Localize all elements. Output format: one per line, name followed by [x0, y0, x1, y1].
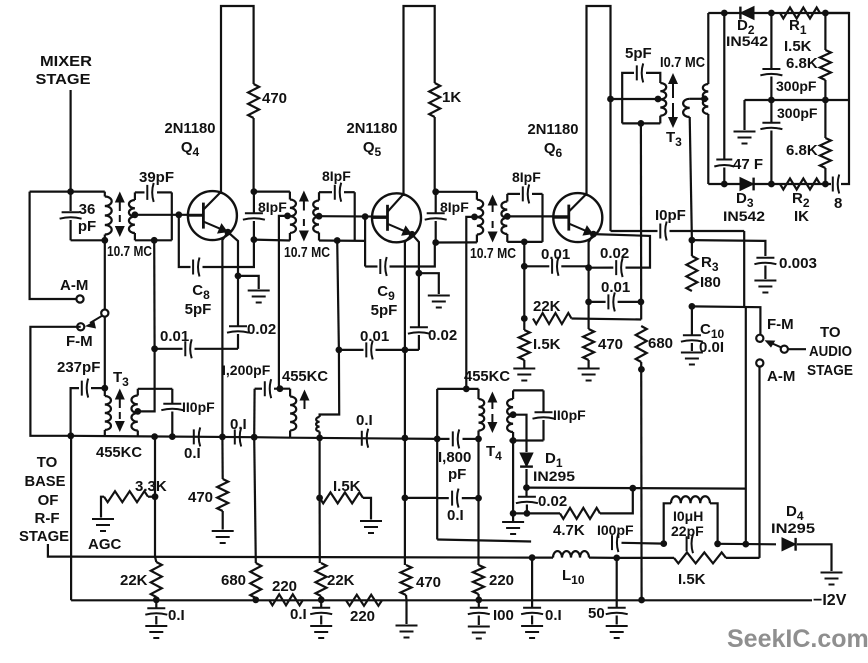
svg-text:6.8K: 6.8K [786, 142, 818, 159]
arrow coupling down (T2) [303, 219, 305, 234]
wire tank2 tap riser [279, 216, 288, 389]
node Q4 emitter [225, 229, 232, 236]
wire T4 tap to D1 [513, 415, 526, 452]
inductor tank4 [476, 192, 478, 200]
wire emitter line to rail (Q5) [404, 350, 406, 438]
node tank2 bottom-left [251, 236, 258, 243]
svg-text:0.I: 0.I [290, 606, 307, 623]
ground 0.1 (22K AGC) [145, 626, 167, 638]
svg-text:3.3K: 3.3K [135, 478, 167, 495]
svg-text:5pF: 5pF [185, 301, 212, 318]
inductor T3out tertiary [690, 98, 705, 100]
wire to R-F stage stub [48, 544, 71, 557]
capacitor 81pF (Q5 input) [319, 191, 332, 193]
arrow coupling down (T4c) [492, 221, 494, 235]
wire tank2 top edge [254, 191, 290, 193]
node det mid left [768, 97, 775, 104]
arrow coupling down (T3) [119, 412, 121, 424]
svg-text:IN542: IN542 [723, 208, 765, 224]
svg-text:47 F: 47 F [733, 156, 763, 173]
wire Q4 emitter branch right [228, 232, 238, 276]
wire tank5 bottom edge [507, 241, 542, 243]
inductor T3 primary [104, 388, 106, 396]
capacitor 0.02 (Q4) [237, 276, 239, 326]
wire A-M line (mixer) [30, 192, 77, 299]
node D1 output [523, 484, 530, 491]
capacitor 1800pF [437, 438, 449, 440]
capacitor 0.003 [754, 258, 776, 264]
inductor T3 secondary [137, 389, 139, 396]
inductor tank1 (primary 10.7MC) [104, 192, 106, 197]
ground C10 [681, 353, 703, 365]
svg-text:455KC: 455KC [282, 368, 328, 385]
terminal F-M (audio) [756, 335, 763, 342]
inductor tank5 [506, 194, 508, 202]
capacitor 0.1 (22K AGC) [155, 600, 157, 608]
svg-text:0.01: 0.01 [541, 246, 570, 263]
wire rail stage2 [290, 438, 437, 439]
svg-text:2N1180: 2N1180 [165, 120, 216, 137]
svg-text:0.I: 0.I [545, 607, 562, 624]
wire tank2 bottom edge [254, 239, 290, 242]
wire T4 left edge [436, 439, 438, 540]
capacitor 110pF (T3) [171, 389, 173, 403]
capacitor 0.1 (stage2 rail) [362, 429, 368, 448]
ground 0.003 [754, 281, 776, 293]
wire switch to T3 [104, 316, 106, 388]
capacitor C8 5pF [179, 215, 191, 267]
node 0.01 left (39pF riser) [151, 345, 158, 352]
wire T455-2 left edge [253, 389, 256, 438]
wire D4 to ground [797, 544, 832, 571]
wire Q5 collector riser [402, 194, 404, 196]
wire F-M line left [30, 327, 80, 436]
capacitor 0.02 (Q5) [418, 273, 420, 326]
svg-text:AUDIO: AUDIO [809, 343, 852, 360]
wire from mixer stage [69, 90, 71, 192]
wire rail to T3 junction riser [70, 436, 72, 601]
wire T4s bottom edge [509, 439, 543, 441]
wire R3 bottom to F-M [692, 306, 761, 334]
svg-text:0.I: 0.I [184, 445, 201, 462]
wire T455-2 bottom edge [254, 436, 290, 439]
wire 5pF bottom edge [622, 122, 660, 124]
node Q4 base junction [175, 211, 182, 218]
node 0.01b right (Q6) [638, 299, 645, 306]
svg-text:0.I: 0.I [356, 412, 373, 429]
wire tap to Q5 base [319, 215, 388, 218]
node 5pF tank tap [655, 96, 662, 103]
capacitor 0.02 (D1) [525, 488, 527, 496]
ground 1.5K (stage2) [360, 521, 382, 533]
svg-text:A-M: A-M [767, 368, 795, 385]
svg-text:II0pF: II0pF [553, 407, 586, 423]
resistor 470 (Q6 emitter) [583, 329, 594, 360]
ground 3.3K (AGC) [92, 519, 114, 531]
node tank3 tap [316, 213, 323, 220]
wire 5pF tap [611, 98, 658, 100]
node Q5 base junction [362, 213, 369, 220]
svg-text:pF: pF [78, 218, 96, 235]
node tank1s tap [132, 211, 139, 218]
svg-text:680: 680 [221, 572, 246, 589]
capacitor 237pF [71, 388, 79, 436]
svg-text:220: 220 [350, 608, 375, 625]
svg-text:I.5K: I.5K [678, 571, 706, 588]
ground 470 (Q6) [587, 360, 589, 368]
capacitor 0.1 (22K2) [320, 600, 322, 607]
wire det mid rail [745, 99, 850, 101]
wire Q6 emitter loop [593, 234, 650, 268]
ground D4 [821, 573, 843, 585]
transistor Q5 2N1180 [372, 193, 421, 242]
resistor 6.8K (upper) [824, 13, 826, 50]
svg-text:8IpF: 8IpF [258, 199, 287, 215]
wire tank4 top edge [436, 191, 477, 193]
svg-text:F-M: F-M [66, 333, 93, 350]
node 1800 right [475, 436, 482, 443]
resistor 1.5K (AM) [617, 557, 674, 559]
capacitor 300pF (upper) [760, 69, 782, 75]
svg-text:IN295: IN295 [771, 520, 815, 536]
wire tank3 bottom edge [319, 239, 365, 242]
capacitor 0.02 (Q6) [616, 258, 622, 277]
node 1.5K left (stage2) [316, 495, 323, 502]
node combo right [714, 540, 721, 547]
svg-text:10.7 MC: 10.7 MC [470, 245, 516, 262]
svg-text:BASE: BASE [25, 473, 66, 490]
svg-text:470: 470 [188, 489, 213, 506]
node T4s bottom [510, 437, 517, 444]
node T4s gnd junction [510, 510, 517, 517]
arrow coupling down (out T3) [672, 103, 674, 120]
node 22K2 bottom [318, 596, 325, 603]
diode D3 1N542 [740, 178, 754, 191]
svg-text:0.003: 0.003 [779, 255, 817, 272]
svg-text:220: 220 [272, 578, 297, 595]
wire D1 to node [525, 469, 527, 488]
node T3 primary top [101, 385, 108, 392]
wire Q4 emitter branch left [222, 232, 228, 437]
wire R3 top to 0.003 [692, 240, 766, 256]
wire 1K to tank [434, 117, 436, 192]
ground 1.5K (Q6) [523, 360, 525, 368]
wire tank4 tap riser [466, 217, 474, 389]
node T3s right bottom [169, 433, 176, 440]
node tank5 tap [504, 213, 511, 220]
svg-text:8IpF: 8IpF [322, 168, 351, 184]
wire AM switch riser [758, 367, 760, 558]
ground 100 [468, 627, 490, 639]
terminal A-M (mixer) [76, 295, 83, 302]
node tank4 top-left [432, 188, 439, 195]
capacitor 50 [616, 558, 618, 607]
capacitor 8 (det) [833, 175, 839, 194]
wire tank1s bottom edge [135, 239, 172, 241]
resistor R2 [780, 179, 820, 190]
svg-text:0.02: 0.02 [247, 321, 276, 338]
diode D4 1N295 [782, 538, 796, 551]
inductor T455-2 primary [289, 389, 291, 397]
node 5pF tap left [607, 96, 614, 103]
wire tank1 to wiper [104, 240, 106, 309]
svg-text:2N1180: 2N1180 [528, 121, 579, 138]
wire detector top rail [708, 12, 849, 14]
resistor 220 (bottom b) [346, 595, 382, 606]
svg-text:I0.7 MC: I0.7 MC [660, 54, 705, 71]
wire tank5 bottom riser [523, 242, 525, 266]
node T455-2 sec bottom [316, 435, 323, 442]
wire AGC tap riser [154, 437, 156, 557]
node det tm [768, 10, 775, 17]
node tank4 bottom-left [432, 239, 439, 246]
node det bl [721, 181, 728, 188]
wire rail2 [71, 599, 812, 601]
svg-text:8IpF: 8IpF [440, 199, 469, 215]
svg-text:I0μH: I0μH [673, 508, 703, 524]
svg-text:0.01: 0.01 [360, 328, 389, 345]
node rail x222 [219, 434, 226, 441]
switch wiper (audio) [781, 346, 788, 353]
svg-text:22pF: 22pF [671, 523, 704, 539]
wire top loop 2 [404, 6, 435, 196]
wire 680 down [640, 362, 643, 600]
node T3out tap [701, 95, 708, 102]
transistor Q6 2N1180 [553, 193, 602, 242]
svg-text:470: 470 [598, 336, 623, 353]
resistor 1K (Q5 collector load) [429, 83, 440, 117]
wire det right edge [825, 13, 849, 184]
node T3s left bottom [151, 433, 158, 440]
capacitor 39pF [135, 191, 145, 193]
wire Q5 emitter branch left [405, 234, 412, 350]
resistor 470 (Q4 emitter bias) [221, 437, 224, 479]
svg-text:0.01: 0.01 [601, 279, 630, 296]
resistor 470 (Q4 collector load) [248, 84, 259, 118]
svg-text:6.8K: 6.8K [786, 55, 818, 72]
svg-text:SeekIC.com: SeekIC.com [727, 625, 868, 653]
inductor tank1 secondary [134, 192, 136, 200]
arrow coupling up (out T3) [672, 81, 674, 98]
ground 0.1 (x532) [521, 626, 543, 638]
resistor R1 [780, 8, 820, 19]
svg-text:I.5K: I.5K [533, 336, 561, 353]
svg-text:IK: IK [794, 208, 809, 225]
svg-text:I0pF: I0pF [655, 207, 686, 224]
wire 0.01 node down to T3 tap [140, 349, 155, 412]
wire 39pF bottom to 0.01 [153, 240, 156, 348]
ground 470 (Q4 emitter bias) [222, 511, 224, 530]
svg-text:OF: OF [38, 492, 59, 509]
inductor L10 [532, 556, 553, 558]
capacitor 0.01 (Q6 emitter) [589, 301, 606, 303]
svg-text:1K: 1K [442, 89, 461, 106]
wire tank1 bottom edge [71, 239, 105, 241]
transistor Q4 2N1180 [188, 191, 237, 240]
svg-text:0.I: 0.I [447, 507, 464, 524]
node 3.3K junction [152, 493, 159, 500]
capacitor 0.01 (Q4) [155, 348, 183, 350]
arrow coupling up (T4c) [492, 203, 494, 213]
node D1 bus / 4.7K riser [629, 485, 636, 492]
svg-text:I00pF: I00pF [597, 522, 634, 538]
node det br [822, 181, 829, 188]
wire T4 left edge upper [436, 389, 438, 439]
node 22K AGC bottom [153, 596, 160, 603]
svg-text:I80: I80 [700, 274, 721, 291]
svg-text:TO: TO [37, 454, 58, 471]
svg-text:I,200pF: I,200pF [222, 362, 271, 378]
wire 47F line [723, 13, 725, 159]
capacitor 0.1 (x532) [531, 558, 533, 607]
node 680 bottom [638, 366, 645, 373]
wire tank4 bottom edge [436, 241, 477, 243]
svg-text:A-M: A-M [60, 277, 88, 294]
node tank2 tap [284, 213, 291, 220]
wire Q6 collector riser [585, 194, 587, 196]
capacitor C10 0.01 [691, 306, 693, 334]
node 680 bottom rail2 [252, 597, 259, 604]
diode D1 1N295 [520, 453, 533, 467]
node tank5 bottom [521, 239, 528, 246]
wire 4.7K to riser [600, 488, 633, 513]
svg-text:STAGE: STAGE [807, 362, 853, 379]
capacitor 5pF (top) [622, 73, 634, 99]
ground Q4 emitter [248, 291, 270, 303]
node tank1s bottom [151, 237, 158, 244]
svg-text:MIXER: MIXER [40, 53, 92, 70]
inductor T455-2 secondary [319, 415, 321, 418]
node T3s tap [134, 408, 141, 415]
svg-text:22K: 22K [533, 298, 561, 315]
svg-text:470: 470 [262, 90, 287, 107]
svg-text:220: 220 [489, 572, 514, 589]
wire T4 bottom out [437, 540, 531, 542]
svg-text:IN295: IN295 [533, 468, 575, 484]
node T4 top left [434, 436, 441, 443]
node tank4 tap [471, 214, 478, 221]
wire riser to 22K (Q6) [523, 266, 525, 318]
arrow coupling up (T3) [119, 397, 121, 409]
svg-text:0.I: 0.I [230, 416, 247, 433]
arrow coupling up (T4t) [491, 400, 493, 410]
wire 100pF to combo [622, 542, 664, 545]
wire 0.01 node down to T455-2 [320, 350, 340, 416]
capacitor 22pF [687, 534, 693, 553]
wire Q4 collector riser [220, 192, 222, 194]
svg-text:0.I: 0.I [168, 607, 185, 624]
wire gnd junction to 4.7K [513, 512, 560, 514]
ground 0.1 (22K2) [310, 626, 332, 638]
svg-text:−I2V: −I2V [813, 592, 847, 609]
svg-text:50: 50 [588, 605, 605, 622]
node 22K left (Q6) [521, 315, 528, 322]
wire 680 line [254, 437, 256, 563]
node T455-2 top (tap riser) [277, 385, 284, 392]
svg-text:0.02: 0.02 [538, 493, 567, 510]
wire T4 top edge [437, 388, 478, 390]
svg-text:I.5K: I.5K [333, 478, 361, 495]
inductor tank2 [289, 192, 291, 200]
resistor 470 (bottom) [401, 565, 412, 595]
svg-text:I00: I00 [493, 607, 514, 624]
node AGC x532 [529, 554, 536, 561]
svg-text:300pF: 300pF [776, 78, 817, 94]
capacitor 81pF (Q4 output) [253, 192, 255, 213]
node AGC x617 [613, 555, 620, 562]
wire to ground stub Q4 [238, 276, 259, 289]
capacitor 0.01 (Q6 base) [524, 265, 549, 267]
arrow coupling up (T2) [303, 199, 305, 211]
resistor 4.7K [560, 508, 600, 519]
wire top loop 1 [221, 6, 254, 193]
resistor 680 (Q6) [636, 326, 647, 362]
wire tank1s right edge [171, 192, 173, 240]
node Q5 emitter [409, 231, 416, 238]
wire AGC rail [71, 557, 532, 558]
wire T4s bottom to gnd junction [512, 441, 514, 514]
arrow coupling down (T1) [119, 215, 121, 229]
svg-text:680: 680 [648, 335, 673, 352]
node R3 bottom [689, 303, 696, 310]
inductor T4 primary [477, 389, 479, 399]
node mixer/tank top [67, 188, 74, 195]
svg-text:237pF: 237pF [57, 359, 100, 376]
wire emitter line to 470 (Q6) [587, 302, 589, 329]
wire x405 down [404, 438, 406, 565]
capacitor 47uF [714, 160, 734, 167]
wire tank1 top edge [30, 191, 105, 193]
capacitor 110pF (T4) [542, 390, 544, 411]
node rail left [67, 432, 74, 439]
resistor R3 180 [691, 240, 693, 256]
resistor 22K (bottom 2) [316, 563, 327, 596]
wire tank5 right edge [541, 194, 543, 242]
node R3 top [689, 237, 696, 244]
svg-text:2N1180: 2N1180 [347, 120, 398, 137]
resistor 3.3K [148, 496, 155, 498]
node T4 0.1 right [475, 495, 482, 502]
svg-text:F-M: F-M [767, 316, 794, 333]
terminal F-M (mixer) [77, 323, 84, 330]
wire 300pF line upper [770, 13, 772, 68]
diode D2 1N542 [740, 7, 754, 20]
svg-text:I.5K: I.5K [784, 38, 812, 55]
terminal A-M (audio) [756, 359, 763, 366]
svg-text:R-F: R-F [35, 510, 60, 527]
node rail2 x641 [638, 597, 645, 604]
wire detector riser [745, 307, 747, 544]
ground Q5 emitter [428, 296, 450, 308]
wire tank3 bottom to 0.01 [337, 241, 339, 350]
svg-text:10.7 MC: 10.7 MC [284, 244, 330, 261]
node tank3 bottom [334, 237, 341, 244]
inductor 10uH [664, 503, 671, 543]
wire x405 to T4 0.1 wire [405, 497, 437, 499]
capacitor 81pF (Q6 input) [507, 193, 520, 195]
inductor T3out secondary [707, 13, 709, 84]
node det tl [721, 10, 728, 17]
svg-text:STAGE: STAGE [19, 528, 69, 545]
node 0.01 left (tank3 riser) [336, 347, 343, 354]
resistor 220 (bottom c) [473, 565, 484, 594]
svg-text:22K: 22K [327, 572, 355, 589]
node 5pF bottom [638, 120, 645, 127]
node det bm [768, 181, 775, 188]
node det tr [822, 10, 829, 17]
wire combo to D4 [718, 543, 776, 546]
resistor 220 (bottom a) [269, 594, 303, 605]
